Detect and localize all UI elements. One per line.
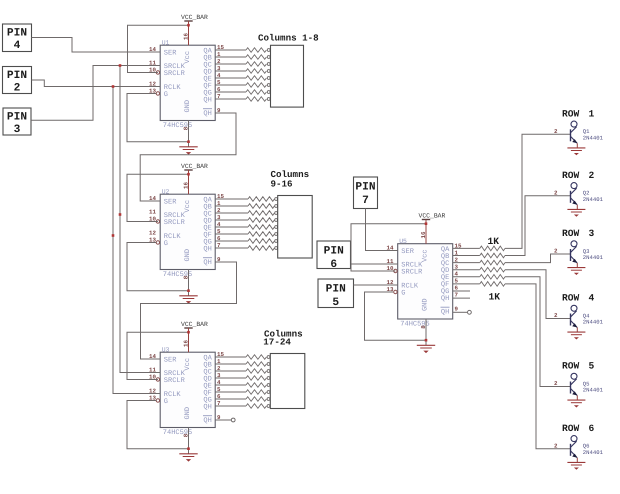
- svg-text:Vcc: Vcc: [421, 249, 429, 262]
- svg-text:7: 7: [362, 195, 369, 207]
- connector Columns 1-8: [271, 45, 304, 107]
- transistor Q5 2N4401: [554, 373, 604, 400]
- wire U2 G to ground: [127, 243, 189, 291]
- svg-text:G: G: [164, 91, 168, 99]
- wavy wire column 19: [246, 369, 266, 374]
- wavy wire column 5: [246, 76, 266, 81]
- connector pin circle: [267, 98, 270, 101]
- wavy wire column 8: [246, 97, 266, 102]
- svg-text:SRCLR: SRCLR: [164, 70, 186, 78]
- svg-text:VCC_BAR: VCC_BAR: [181, 321, 208, 328]
- junction: [187, 173, 190, 176]
- svg-text:4: 4: [14, 40, 21, 52]
- svg-text:VCC_BAR: VCC_BAR: [181, 163, 208, 170]
- junction: [119, 64, 122, 67]
- wire U1 QC stub: [215, 63, 246, 65]
- connector pin circle: [267, 377, 270, 380]
- wire resistor to Q5 base: [505, 277, 570, 387]
- connector pin circle: [267, 70, 270, 73]
- IC U3 74HC595 shift register: [149, 340, 224, 438]
- label ROW 6: [562, 423, 595, 434]
- wavy wire column 24: [246, 404, 266, 409]
- svg-text:1K: 1K: [488, 236, 500, 247]
- wire SRCLK bus to U2/U3: [120, 66, 160, 373]
- svg-text:QH: QH: [203, 403, 211, 411]
- resistor 1K (row 2): [480, 253, 505, 258]
- connector PIN 7: [354, 177, 378, 209]
- wavy wire column 22: [246, 390, 266, 395]
- wire PIN6 to U5 SRCLK: [351, 263, 398, 265]
- svg-text:1: 1: [589, 109, 595, 120]
- svg-text:U3: U3: [162, 346, 170, 353]
- svg-text:QH: QH: [203, 417, 211, 425]
- wire U3 QB stub: [215, 363, 246, 365]
- svg-text:2: 2: [554, 128, 558, 135]
- wire VCC to U1 SRCLR: [128, 25, 189, 72]
- svg-text:SRCLR: SRCLR: [164, 219, 186, 227]
- wire U2 QB stub: [215, 205, 248, 207]
- transistor Q6 2N4401: [554, 436, 604, 463]
- wire U2 QD stub: [215, 219, 248, 221]
- svg-text:1K: 1K: [489, 291, 501, 302]
- svg-text:2: 2: [554, 442, 558, 449]
- wire U5 QB stub: [453, 255, 480, 257]
- wire U1 QH' to U2 SER: [140, 113, 236, 201]
- connector pin circle: [267, 56, 270, 59]
- svg-text:SER: SER: [164, 198, 177, 206]
- wire U3 QC stub: [215, 370, 246, 372]
- svg-text:5: 5: [589, 361, 595, 372]
- wire U3 QA stub: [215, 356, 246, 358]
- wavy wire column 9: [248, 197, 274, 202]
- no-connect marker U5 QH': [468, 310, 472, 314]
- wavy wire column 3: [246, 62, 266, 67]
- resistor 1K (row 3): [480, 260, 505, 265]
- label ROW 5: [562, 361, 595, 372]
- connector pin circle: [275, 212, 278, 215]
- svg-text:2: 2: [554, 312, 558, 319]
- wire U5 QH stub: [453, 297, 470, 299]
- IC U5 74HC595 shift register: [387, 231, 462, 329]
- wire PIN2 to U1 RCLK: [32, 80, 161, 87]
- svg-text:PIN: PIN: [7, 112, 27, 124]
- svg-text:QH: QH: [441, 309, 449, 317]
- svg-text:G: G: [401, 289, 405, 297]
- connector pin circle: [267, 91, 270, 94]
- power VCC_BAR symbol above U3: [181, 321, 208, 352]
- label ROW 1: [562, 109, 595, 120]
- ground symbol below U3: [179, 428, 197, 462]
- wire U1 QH stub: [215, 98, 246, 100]
- wavy wire column 4: [246, 69, 266, 74]
- svg-text:QH: QH: [203, 96, 211, 104]
- svg-text:2: 2: [554, 380, 558, 387]
- wire U2 QH' to U3 SER: [141, 262, 237, 359]
- wavy wire column 11: [248, 211, 274, 216]
- connector pin circle: [267, 49, 270, 52]
- connector pin circle: [267, 391, 270, 394]
- wire U5 QC stub: [453, 262, 480, 264]
- wire U1 QD stub: [215, 70, 246, 72]
- wavy wire column 14: [248, 232, 274, 237]
- wire resistor to Q6 base: [505, 284, 570, 449]
- svg-text:U2: U2: [162, 188, 170, 195]
- wire U1 QE stub: [215, 77, 246, 79]
- svg-text:GND: GND: [184, 407, 192, 420]
- wire U2 QH stub: [215, 247, 248, 249]
- junction: [187, 289, 190, 292]
- wire U2 QG stub: [215, 240, 248, 242]
- wire U3 QE stub: [215, 384, 246, 386]
- power VCC_BAR symbol above U1: [181, 14, 208, 45]
- junction: [187, 447, 190, 450]
- svg-text:ROW: ROW: [562, 423, 580, 434]
- svg-text:2N4401: 2N4401: [583, 196, 604, 203]
- connector pin circle: [275, 240, 278, 243]
- wire U2 QE stub: [215, 226, 248, 228]
- power VCC_BAR symbol above U5: [419, 212, 446, 243]
- wire RCLK bus to U2/U3: [113, 87, 160, 394]
- wire U5 QD stub: [453, 269, 480, 271]
- wire U1 QB stub: [215, 56, 246, 58]
- svg-text:SRCLR: SRCLR: [401, 268, 423, 276]
- ground symbol below Q4: [567, 332, 585, 339]
- connector pin circle: [275, 198, 278, 201]
- connector Columns 17-24: [270, 354, 305, 409]
- wavy wire column 13: [248, 225, 274, 230]
- wavy wire column 18: [246, 362, 266, 367]
- connector pin circle: [275, 233, 278, 236]
- wavy wire column 16: [248, 246, 274, 251]
- label Columns 17-24: [263, 328, 302, 347]
- wire PIN4 to U1 SER: [32, 38, 161, 53]
- connector PIN 3: [3, 108, 31, 136]
- svg-text:2: 2: [589, 170, 595, 181]
- wire resistor to Q3 base: [505, 254, 570, 263]
- svg-text:VCC_BAR: VCC_BAR: [419, 212, 446, 219]
- wire U2 QC stub: [215, 212, 248, 214]
- wire U5 QA stub: [453, 247, 480, 249]
- wavy wire column 20: [246, 376, 266, 381]
- svg-text:GND: GND: [184, 249, 192, 262]
- svg-text:ROW: ROW: [562, 109, 580, 120]
- svg-text:PIN: PIN: [7, 28, 27, 40]
- wire U5 G to ground: [365, 292, 427, 340]
- svg-text:Vcc: Vcc: [184, 358, 192, 371]
- connector pin circle: [275, 226, 278, 229]
- svg-text:12: 12: [149, 230, 156, 237]
- junction: [187, 140, 190, 143]
- wire U3 QH' stub: [215, 419, 231, 421]
- ground symbol below Q2: [567, 209, 585, 216]
- svg-text:2: 2: [554, 248, 558, 255]
- connector pin circle: [267, 370, 270, 373]
- transistor Q4 2N4401: [554, 305, 604, 332]
- wire U1 QF stub: [215, 84, 246, 86]
- no-connect marker U3 QH': [231, 418, 235, 422]
- wire U1 G to ground: [127, 94, 189, 142]
- svg-text:3: 3: [589, 228, 595, 239]
- wavy wire column 15: [248, 239, 274, 244]
- wavy wire column 1: [246, 48, 266, 53]
- junction: [187, 24, 190, 27]
- svg-text:6: 6: [589, 423, 595, 434]
- connector pin circle: [267, 384, 270, 387]
- wire resistor to Q1 base: [505, 134, 570, 248]
- wavy wire column 6: [246, 83, 266, 88]
- ground symbol below U2: [179, 270, 197, 304]
- label ROW 3: [562, 228, 595, 239]
- svg-text:PIN: PIN: [324, 246, 344, 258]
- ground symbol below Q6: [567, 462, 585, 469]
- svg-text:2: 2: [14, 83, 21, 95]
- svg-text:ROW: ROW: [562, 361, 580, 372]
- wire U5 QH' stub: [453, 311, 467, 313]
- resistor 1K (row 5): [480, 275, 505, 280]
- svg-text:Vcc: Vcc: [184, 200, 192, 213]
- connector pin circle: [267, 405, 270, 408]
- junction: [425, 339, 428, 342]
- svg-text:QH: QH: [203, 110, 211, 118]
- connector pin circle: [275, 247, 278, 250]
- ground symbol below Q1: [567, 148, 585, 155]
- svg-text:G: G: [164, 398, 168, 406]
- ground symbol below U5: [417, 319, 435, 353]
- svg-text:G: G: [164, 240, 168, 248]
- connector pin circle: [275, 219, 278, 222]
- wire U2 QA stub: [215, 198, 248, 200]
- svg-text:SER: SER: [164, 356, 177, 364]
- wire PIN3 to U1 SRCLK: [31, 66, 160, 121]
- svg-text:3: 3: [14, 124, 21, 136]
- resistor 1K (row 6): [480, 282, 505, 287]
- transistor Q3 2N4401: [554, 241, 604, 268]
- label ROW 4: [562, 293, 595, 304]
- connector pin circle: [267, 84, 270, 87]
- wire U5 QF stub: [453, 283, 480, 285]
- wire U3 G to ground: [127, 401, 189, 449]
- ground symbol below U1: [179, 121, 197, 155]
- connector Columns 9-16: [278, 196, 313, 259]
- wire resistor to Q2 base: [505, 196, 570, 256]
- wire resistor to Q4 base: [505, 270, 570, 319]
- wire U5 QE stub: [453, 276, 480, 278]
- connector PIN 4: [3, 24, 32, 52]
- wire PIN5 to U5 RCLK: [354, 284, 398, 286]
- svg-text:ROW: ROW: [562, 293, 580, 304]
- svg-text:SER: SER: [164, 49, 177, 57]
- wire U3 QD stub: [215, 377, 246, 379]
- resistor 1K (row 1): [480, 246, 505, 251]
- wavy wire column 23: [246, 397, 266, 402]
- junction: [119, 213, 122, 216]
- wire U3 QF stub: [215, 391, 246, 393]
- power VCC_BAR symbol above U2: [181, 163, 208, 194]
- svg-text:U5: U5: [399, 238, 407, 245]
- svg-text:QH: QH: [203, 259, 211, 267]
- wire VCC to U2 SRCLR: [127, 174, 189, 221]
- svg-text:2N4401: 2N4401: [583, 387, 604, 394]
- svg-text:2N4401: 2N4401: [583, 449, 604, 456]
- connector pin circle: [275, 205, 278, 208]
- connector pin circle: [267, 356, 270, 359]
- wire VCC to U3 SRCLR: [127, 332, 189, 379]
- svg-text:SRCLR: SRCLR: [164, 377, 186, 385]
- ground symbol below Q5: [567, 400, 585, 407]
- wire U1 QA stub: [215, 49, 246, 51]
- junction: [187, 331, 190, 334]
- svg-text:SER: SER: [401, 248, 414, 256]
- wire VCC to U5 SRCLR: [351, 224, 426, 271]
- wavy wire column 7: [246, 90, 266, 95]
- svg-text:11: 11: [149, 209, 156, 216]
- transistor Q1 2N4401: [554, 121, 604, 148]
- svg-text:2N4401: 2N4401: [583, 254, 604, 261]
- wire U5 QG stub: [453, 290, 470, 292]
- svg-text:PIN: PIN: [355, 182, 375, 194]
- svg-text:QH: QH: [203, 245, 211, 253]
- junction: [425, 222, 428, 225]
- svg-text:VCC_BAR: VCC_BAR: [181, 14, 208, 21]
- svg-text:2N4401: 2N4401: [583, 135, 604, 142]
- svg-text:Columns 1-8: Columns 1-8: [258, 33, 319, 44]
- svg-text:ROW: ROW: [562, 228, 580, 239]
- svg-text:PIN: PIN: [326, 284, 346, 296]
- wavy wire column 2: [246, 55, 266, 60]
- wire U3 QG stub: [215, 398, 246, 400]
- IC U2 74HC595 shift register: [149, 182, 224, 280]
- connector pin circle: [267, 363, 270, 366]
- connector pin circle: [267, 63, 270, 66]
- wire U1 QG stub: [215, 91, 246, 93]
- wire U3 QH stub: [215, 405, 246, 407]
- connector pin circle: [267, 77, 270, 80]
- connector PIN 5: [318, 279, 354, 309]
- svg-text:2: 2: [554, 189, 558, 196]
- svg-text:2N4401: 2N4401: [583, 319, 604, 326]
- svg-text:PIN: PIN: [7, 70, 27, 82]
- wire U2 QF stub: [215, 233, 248, 235]
- junction: [112, 234, 115, 237]
- resistor 1K (row 4): [480, 267, 505, 272]
- svg-text:9-16: 9-16: [271, 178, 293, 189]
- connector pin circle: [267, 398, 270, 401]
- svg-text:U1: U1: [162, 39, 170, 46]
- wire PIN7 to U5 SER: [366, 209, 398, 251]
- ground symbol below Q3: [567, 268, 585, 275]
- label ROW 2: [562, 170, 595, 181]
- svg-text:Vcc: Vcc: [184, 51, 192, 64]
- label Columns 9-16: [271, 169, 310, 189]
- svg-text:6: 6: [330, 259, 337, 271]
- transistor Q2 2N4401: [554, 183, 604, 210]
- wavy wire column 21: [246, 383, 266, 388]
- wavy wire column 17: [246, 355, 266, 360]
- junction: [112, 85, 115, 88]
- svg-text:ROW: ROW: [562, 170, 580, 181]
- svg-text:QH: QH: [441, 295, 449, 303]
- svg-text:17-24: 17-24: [263, 337, 291, 348]
- connector PIN 2: [3, 67, 32, 95]
- IC U1 74HC595 shift register: [149, 33, 224, 131]
- svg-text:5: 5: [332, 297, 339, 309]
- svg-text:9: 9: [455, 306, 459, 313]
- connector PIN 6: [317, 241, 351, 271]
- wavy wire column 10: [248, 204, 274, 209]
- svg-text:4: 4: [589, 293, 595, 304]
- svg-text:GND: GND: [184, 100, 192, 113]
- svg-text:GND: GND: [421, 298, 429, 311]
- wavy wire column 12: [248, 218, 274, 223]
